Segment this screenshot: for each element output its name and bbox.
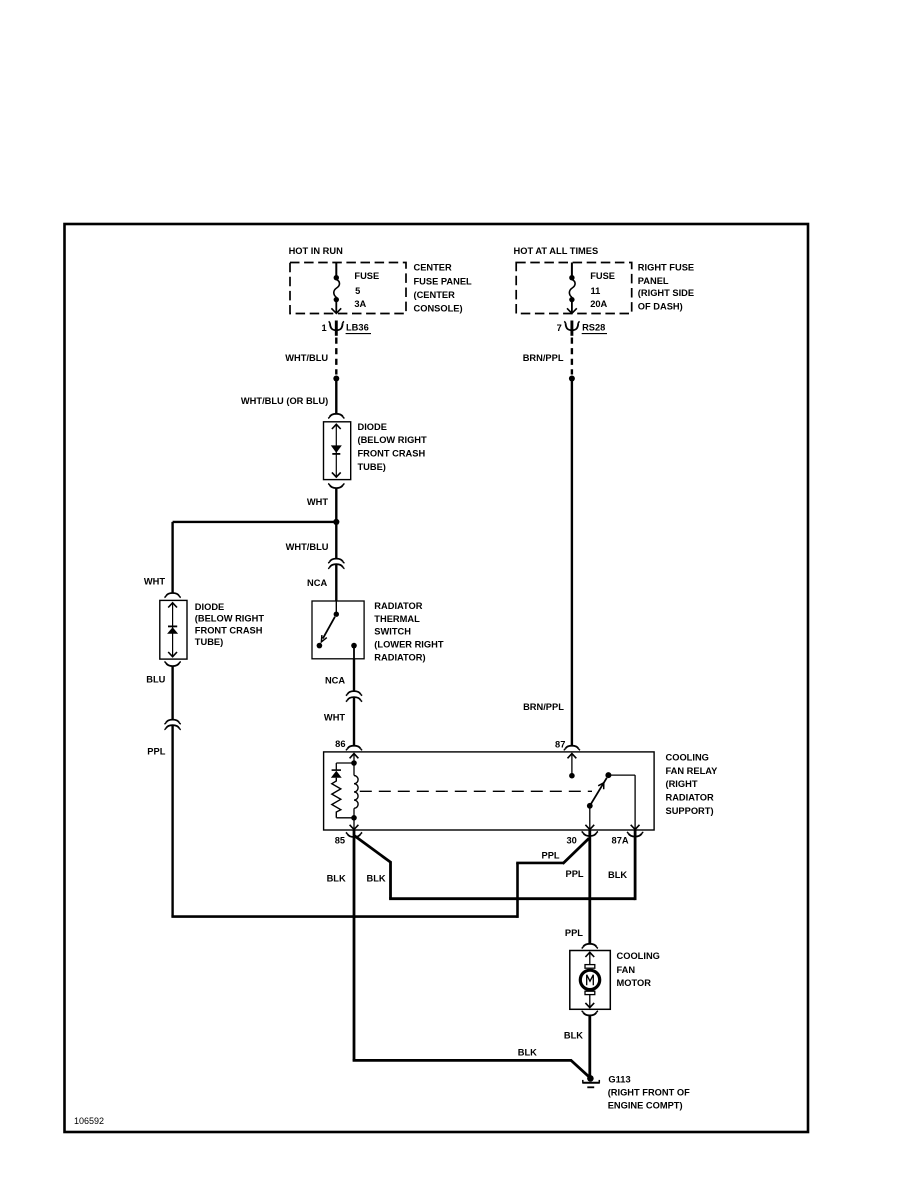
svg-text:RADIATOR: RADIATOR (666, 792, 714, 802)
label COOLING FAN RELAY (RIGHT RADIATOR SUPPORT) (666, 753, 719, 816)
svg-text:PPL: PPL (565, 928, 583, 938)
relay pin 86 connector (335, 739, 362, 750)
svg-text:FAN: FAN (617, 965, 636, 975)
svg-text:7: 7 (557, 323, 562, 333)
svg-text:BLU: BLU (146, 674, 165, 684)
wire WHT/BLU (dashed) (335, 338, 337, 375)
svg-text:TUBE): TUBE) (195, 637, 223, 647)
svg-text:87: 87 (555, 739, 565, 749)
label FUSE 5 3A (354, 271, 379, 309)
wire WHT to junction (335, 488, 337, 520)
svg-text:(BELOW RIGHT: (BELOW RIGHT (358, 435, 428, 445)
label WHT (307, 497, 328, 507)
connector above motor (582, 944, 598, 949)
svg-text:BRN/PPL: BRN/PPL (523, 353, 564, 363)
connector above diode D2 (164, 593, 180, 598)
label WHT/BLU (286, 542, 329, 552)
svg-text:SUPPORT): SUPPORT) (666, 806, 714, 816)
label WHT/BLU (OR BLU) (241, 396, 328, 406)
label CENTER FUSE PANEL (CENTER CONSOLE) (414, 262, 473, 313)
svg-text:DIODE: DIODE (195, 602, 224, 612)
svg-text:1: 1 (322, 323, 327, 333)
label DIODE (BELOW RIGHT FRONT CRASH TUBE) (195, 602, 265, 647)
label WHT (144, 577, 165, 587)
svg-text:THERMAL: THERMAL (374, 614, 420, 624)
left branch: wire WHT down to diode D2 (171, 522, 173, 593)
svg-text:11: 11 (591, 286, 601, 296)
wire branch to left (173, 521, 337, 523)
wire PPL down and right to relay pin 30 path (171, 725, 589, 918)
svg-text:RADIATOR: RADIATOR (374, 601, 422, 611)
svg-text:NCA: NCA (325, 675, 345, 685)
label 106592 (74, 1116, 104, 1126)
label RADIATOR THERMAL SWITCH (LOWER RIGHT RADIATOR) (374, 601, 444, 663)
svg-text:87A: 87A (612, 836, 629, 846)
wire BLK below motor to ground (588, 1015, 591, 1075)
svg-text:WHT/BLU: WHT/BLU (285, 353, 328, 363)
wire NCA below switch (353, 659, 355, 691)
connector below diode D2 (164, 662, 180, 667)
svg-text:PPL: PPL (542, 851, 560, 861)
wire to diode D1 (335, 380, 337, 414)
svg-text:ENGINE COMPT): ENGINE COMPT) (608, 1101, 683, 1111)
label PPL (147, 746, 165, 756)
svg-text:BLK: BLK (327, 873, 346, 883)
svg-text:RS28: RS28 (582, 323, 605, 333)
svg-text:PPL: PPL (566, 869, 584, 879)
relay pin 85 connector (335, 833, 362, 846)
fuse panel: center fuse panel (dashed box) (290, 263, 406, 314)
diode D2 (below right front crash tube) (160, 600, 187, 659)
svg-text:30: 30 (566, 836, 576, 846)
label BLK (608, 870, 627, 880)
svg-text:FRONT CRASH: FRONT CRASH (195, 625, 263, 635)
ground G113 (582, 1075, 600, 1087)
wire WHT/BLU down to inline connector (335, 524, 337, 559)
svg-text:PPL: PPL (147, 746, 165, 756)
wire WHT to relay pin 86 (353, 697, 355, 746)
relay pin 30 connector (566, 832, 598, 846)
svg-text:RADIATOR): RADIATOR) (374, 653, 425, 663)
svg-text:5: 5 (355, 286, 360, 296)
svg-text:FUSE: FUSE (354, 271, 379, 281)
connector below motor (582, 1011, 598, 1016)
svg-text:LB36: LB36 (346, 323, 369, 333)
relay pin 87 connector (555, 739, 580, 750)
cooling fan motor M1 (570, 951, 611, 1010)
svg-text:(LOWER RIGHT: (LOWER RIGHT (374, 640, 444, 650)
wire BRN/PPL (dashed) (571, 338, 573, 375)
svg-text:BRN/PPL: BRN/PPL (523, 702, 564, 712)
label WHT (324, 713, 345, 723)
label BLK (518, 1047, 537, 1057)
svg-text:RIGHT FUSE: RIGHT FUSE (638, 262, 694, 272)
svg-text:(RIGHT FRONT OF: (RIGHT FRONT OF (608, 1088, 690, 1098)
wire BRN/PPL long to relay pin 87 (571, 380, 573, 746)
label HOT AT ALL TIMES (514, 246, 599, 256)
svg-text:FRONT CRASH: FRONT CRASH (358, 449, 426, 459)
splice dot A (333, 376, 339, 382)
svg-text:PANEL: PANEL (638, 276, 669, 286)
svg-text:20A: 20A (590, 299, 607, 309)
svg-text:3A: 3A (354, 299, 366, 309)
svg-text:FUSE PANEL: FUSE PANEL (414, 277, 473, 287)
label PPL above motor (565, 928, 583, 938)
wire BLK from pin 85 straight down (353, 830, 356, 1060)
label COOLING FAN MOTOR (617, 951, 660, 988)
svg-text:WHT: WHT (324, 713, 345, 723)
svg-text:86: 86 (335, 739, 345, 749)
connector LB36 pin 1 (322, 321, 371, 336)
diode D1 (below right front crash tube) (324, 422, 351, 480)
svg-text:BLK: BLK (564, 1031, 583, 1041)
label RIGHT FUSE PANEL (RIGHT SIDE OF DASH) (638, 262, 694, 311)
label BLK (327, 873, 346, 883)
svg-text:85: 85 (335, 836, 345, 846)
wire BLU (171, 666, 173, 720)
label NCA (325, 675, 345, 685)
label BRN/PPL right column top (523, 353, 564, 363)
svg-text:(RIGHT SIDE: (RIGHT SIDE (638, 288, 694, 298)
svg-text:FAN RELAY: FAN RELAY (666, 766, 719, 776)
svg-text:MOTOR: MOTOR (617, 978, 652, 988)
svg-text:WHT: WHT (307, 497, 328, 507)
label BLK (367, 873, 386, 883)
wire NCA to thermal switch (335, 564, 337, 601)
svg-text:(RIGHT: (RIGHT (666, 779, 698, 789)
svg-text:NCA: NCA (307, 578, 327, 588)
label WHT/BLU (285, 353, 328, 363)
relay internal: pin 87 arrow and switch (568, 753, 640, 829)
inline connector C3 (164, 720, 180, 730)
svg-text:OF DASH): OF DASH) (638, 301, 683, 311)
relay internal: pin 86 arrow and coil (331, 753, 359, 829)
wire BLK from pin 85 to 87A bus (354, 836, 635, 899)
svg-text:COOLING: COOLING (666, 753, 709, 763)
label PPL near pin 30 diagonal (542, 851, 560, 861)
svg-text:HOT AT ALL TIMES: HOT AT ALL TIMES (514, 246, 599, 256)
inline connector C2 (346, 691, 362, 702)
svg-text:BLK: BLK (367, 873, 386, 883)
svg-text:(CENTER: (CENTER (414, 290, 456, 300)
label NCA (307, 578, 327, 588)
svg-text:G113: G113 (608, 1075, 630, 1085)
svg-text:BLK: BLK (608, 870, 627, 880)
cooling fan relay box (324, 752, 654, 830)
svg-text:SWITCH: SWITCH (374, 627, 411, 637)
label BRN/PPL (523, 702, 564, 712)
svg-text:DIODE: DIODE (358, 422, 387, 432)
label PPL (566, 869, 584, 879)
svg-text:COOLING: COOLING (617, 951, 660, 961)
junction dot J1 (333, 519, 339, 525)
svg-text:WHT: WHT (144, 577, 165, 587)
label FUSE 11 20A (590, 271, 615, 309)
label BLU (146, 674, 165, 684)
svg-text:FUSE: FUSE (590, 271, 615, 281)
radiator thermal switch S1 (312, 601, 364, 659)
splice dot B (569, 376, 575, 382)
wire BLK from pin 87A down (634, 830, 637, 900)
label G113 (RIGHT FRONT OF ENGINE COMPT) (608, 1075, 690, 1111)
label BLK (564, 1031, 583, 1041)
fuse 5 3A symbol (331, 263, 341, 314)
inline connector C1 (328, 559, 344, 569)
svg-text:TUBE): TUBE) (358, 462, 386, 472)
connector RS28 pin 7 (557, 321, 607, 336)
wire PPL from pin 30 down to motor (588, 830, 591, 944)
svg-text:106592: 106592 (74, 1116, 104, 1126)
connector above diode D1 (328, 414, 344, 419)
fuse panel: right fuse panel (dashed box) (516, 263, 632, 314)
svg-text:HOT IN RUN: HOT IN RUN (289, 246, 344, 256)
fuse 11 20A symbol (567, 263, 577, 314)
svg-text:WHT/BLU (OR BLU): WHT/BLU (OR BLU) (241, 396, 328, 406)
label HOT IN RUN (289, 246, 344, 256)
svg-text:WHT/BLU: WHT/BLU (286, 542, 329, 552)
relay pin 87A connector (612, 832, 644, 845)
svg-text:BLK: BLK (518, 1047, 537, 1057)
svg-text:(BELOW RIGHT: (BELOW RIGHT (195, 614, 265, 624)
svg-text:CONSOLE): CONSOLE) (414, 304, 463, 314)
connector below diode D1 (328, 484, 344, 489)
wire BLK bottom bus to ground (353, 1060, 590, 1077)
svg-text:CENTER: CENTER (414, 262, 453, 272)
label DIODE (BELOW RIGHT FRONT CRASH TUBE) (358, 422, 428, 472)
relay internal: dashed actuation line (360, 790, 592, 792)
